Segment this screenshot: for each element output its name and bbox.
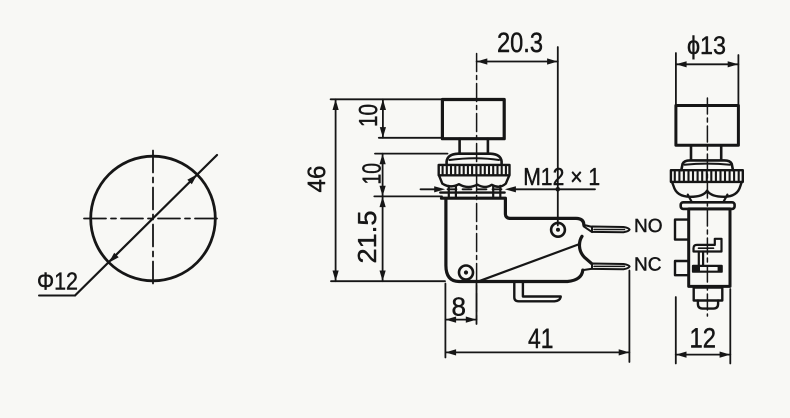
extension line body bottom [331, 280, 445, 282]
vertical center line of button [476, 54, 478, 323]
extension line body left (shared 8/41) [444, 284, 446, 358]
switch body outline [442, 198, 592, 281]
extension line body left (12) [675, 297, 677, 364]
svg-text:20.3: 20.3 [497, 27, 543, 58]
plunger side [694, 288, 723, 301]
leader/extension crossing dot [556, 187, 561, 192]
svg-text:41: 41 [528, 323, 554, 354]
inner bracket upper [694, 239, 722, 252]
svg-text:NO: NO [634, 216, 663, 237]
svg-text:46: 46 [303, 166, 331, 193]
knurled nut band [439, 165, 510, 175]
terminal NC [583, 264, 630, 271]
svg-text:M12 × 1: M12 × 1 [523, 164, 600, 191]
dimension 12 line [676, 354, 731, 356]
cap side [676, 106, 739, 146]
LEFT VIEW: button face circle [37, 151, 222, 296]
internal diagonal lever line [480, 244, 580, 281]
vertical center line [706, 98, 708, 316]
mounting hole bottom-left [459, 266, 473, 280]
dimension 10 (cap) line [382, 99, 384, 138]
svg-text:NC: NC [634, 255, 661, 276]
button cap [442, 100, 504, 139]
dimension 10 (nut) line [382, 154, 384, 197]
thread leader line left [421, 188, 435, 190]
knurled nut band side [671, 170, 743, 182]
extension line dome top [375, 153, 448, 155]
circle button face outline [91, 156, 216, 281]
dome washer under stem [447, 154, 502, 165]
thread leader line right [516, 188, 595, 190]
diameter leader line [75, 155, 217, 296]
knurl strokes [443, 167, 506, 175]
MIDDLE VIEW: front elevation of pushbutton switch [439, 54, 663, 323]
nut scalloped skirt [439, 175, 509, 187]
dimension 41 line [445, 351, 629, 353]
extension line button center (8 right) [476, 284, 478, 325]
neck below nut [688, 195, 692, 202]
svg-text:12: 12 [690, 323, 717, 354]
terminal NO [584, 225, 630, 232]
extension line top (cap top) [331, 98, 444, 100]
dimension 46 line [335, 99, 337, 281]
stem side right [720, 145, 723, 160]
extension line cap left [675, 53, 677, 105]
dimension 21.5 line [382, 196, 384, 281]
body side [689, 209, 730, 287]
bottom hook lever [514, 283, 560, 301]
button stem left side [458, 139, 461, 154]
terminal tab lower (NC edge-on) [675, 261, 689, 275]
RIGHT VIEW dimensions [676, 32, 739, 364]
svg-text:10: 10 [357, 163, 387, 185]
nut skirt side (two scallops) [672, 182, 742, 197]
terminal tab upper (NO edge-on) [675, 220, 689, 240]
extension line cap bottom [379, 137, 443, 139]
thread leader dashes across bushing [448, 188, 503, 190]
vertical center line (dashed) [152, 151, 154, 287]
svg-text:ϕ13: ϕ13 [687, 32, 726, 60]
bushing flange line [440, 191, 504, 193]
RIGHT VIEW: side elevation [671, 98, 743, 316]
extension line nut bottom / body top [374, 195, 442, 197]
extension line body right (12) [729, 289, 731, 364]
extension line cap right [737, 55, 739, 105]
horizontal center line (dashed) [84, 218, 222, 220]
leader arrowhead lower left [109, 253, 119, 263]
MIDDLE VIEW dimensions [303, 27, 629, 362]
extension line terminal tip (41 right) [628, 271, 630, 363]
dome inner line [685, 164, 731, 165]
knurl strokes side [675, 172, 739, 181]
mounting hole top [551, 223, 565, 237]
inner bracket lower [693, 266, 722, 272]
top mounting plate [681, 202, 735, 209]
plunger tip [698, 301, 718, 309]
dimension phi13 line [676, 63, 739, 65]
dome inner line [450, 158, 500, 160]
svg-text:21.5: 21.5 [352, 211, 382, 264]
dome washer side [681, 160, 733, 170]
button stem right side [487, 139, 490, 154]
leader underline [39, 295, 75, 297]
inner spine [698, 252, 700, 266]
extension line to mounting hole (20.3 right) [557, 47, 559, 226]
svg-text:8: 8 [452, 292, 466, 322]
dimension 20.3 line [477, 61, 558, 63]
svg-text:10: 10 [353, 104, 383, 127]
svg-text:Φ12: Φ12 [37, 269, 78, 296]
stem side left [690, 145, 693, 160]
threaded bushing side lines [449, 186, 501, 197]
leader arrowhead upper right [187, 174, 197, 184]
dimension 8 line [445, 319, 476, 321]
